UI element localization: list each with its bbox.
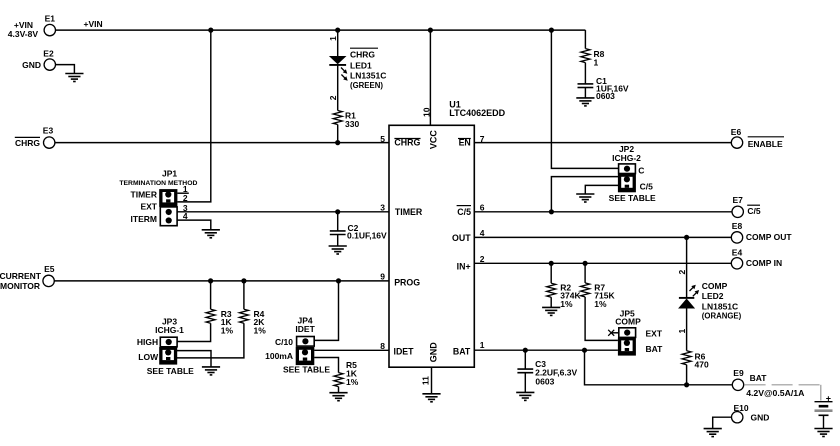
svg-text:1%: 1% [594,299,607,309]
svg-text:SEE TABLE: SEE TABLE [283,365,330,375]
svg-text:E4: E4 [732,247,743,257]
svg-text:TIMER: TIMER [395,207,423,217]
svg-text:4: 4 [183,211,188,221]
svg-text:C/5: C/5 [640,181,654,191]
svg-text:GND: GND [429,342,439,363]
svg-text:SEE TABLE: SEE TABLE [147,366,194,376]
svg-text:C/5: C/5 [747,206,761,216]
svg-text:CURRENT: CURRENT [0,271,42,281]
svg-text:4: 4 [480,228,485,238]
svg-text:E6: E6 [731,127,742,137]
svg-text:+VIN: +VIN [84,19,103,29]
svg-text:C/10: C/10 [275,337,293,347]
svg-text:1%: 1% [254,325,267,335]
svg-text:(ORANGE): (ORANGE) [702,312,742,321]
svg-text:LED2: LED2 [702,291,724,301]
svg-text:9: 9 [380,272,385,282]
svg-text:(GREEN): (GREEN) [350,81,383,90]
svg-text:LOW: LOW [138,352,159,362]
svg-text:C/5: C/5 [457,207,471,217]
svg-text:IDET: IDET [394,347,415,357]
svg-text:PROG: PROG [394,277,420,287]
svg-text:8: 8 [380,341,385,351]
svg-text:2: 2 [183,193,188,203]
svg-text:BAT: BAT [453,347,471,357]
svg-text:4.3V-8V: 4.3V-8V [8,29,39,39]
svg-text:ENABLE: ENABLE [748,139,783,149]
svg-text:SEE TABLE: SEE TABLE [609,193,656,203]
svg-text:1%: 1% [346,377,359,387]
svg-text:1%: 1% [560,299,573,309]
svg-text:BAT: BAT [750,373,768,383]
svg-text:0.1UF,16V: 0.1UF,16V [347,231,387,241]
svg-text:E1: E1 [45,14,56,24]
svg-text:LED1: LED1 [350,60,372,70]
svg-text:470: 470 [695,360,709,370]
svg-text:VCC: VCC [428,130,438,150]
svg-text:2: 2 [328,95,338,100]
svg-text:GND: GND [22,60,41,70]
svg-text:1%: 1% [221,325,234,335]
svg-text:EXT: EXT [140,202,157,212]
svg-text:COMP OUT: COMP OUT [746,232,792,242]
svg-text:3: 3 [380,203,385,213]
svg-text:0603: 0603 [535,376,554,386]
svg-text:10: 10 [422,107,432,117]
svg-text:1: 1 [677,328,687,333]
svg-text:100mA: 100mA [265,351,293,361]
svg-text:LN1351C: LN1351C [350,71,386,81]
svg-text:E7: E7 [732,195,743,205]
svg-text:ICHG-2: ICHG-2 [612,153,641,163]
svg-text:HIGH: HIGH [137,337,158,347]
svg-text:E5: E5 [44,264,55,274]
svg-text:CHRG: CHRG [15,138,40,148]
svg-text:330: 330 [345,119,359,129]
svg-text:+: + [826,394,831,404]
svg-text:E3: E3 [43,125,54,135]
svg-text:5: 5 [380,134,385,144]
svg-text:E9: E9 [733,368,744,378]
svg-text:LTC4062EDD: LTC4062EDD [449,108,505,118]
svg-text:COMP IN: COMP IN [746,258,782,268]
svg-text:E2: E2 [43,49,54,59]
svg-text:CHRG: CHRG [350,49,375,59]
svg-text:COMP: COMP [702,281,728,291]
svg-text:7: 7 [480,134,485,144]
svg-text:0603: 0603 [596,91,615,101]
svg-text:LN1851C: LN1851C [702,302,738,312]
svg-text:IDET: IDET [295,324,315,334]
svg-text:C: C [638,166,644,176]
svg-text:E10: E10 [733,403,748,413]
svg-text:GND: GND [751,413,770,423]
svg-text:E8: E8 [732,221,743,231]
svg-text:1: 1 [480,340,485,350]
svg-text:1: 1 [328,36,338,41]
svg-text:1: 1 [594,58,599,68]
svg-text:ITERM: ITERM [131,214,157,224]
svg-text:COMP: COMP [615,316,641,326]
svg-text:11: 11 [420,376,430,385]
svg-text:6: 6 [480,203,485,213]
svg-text:BAT: BAT [646,344,664,354]
svg-text:JP1: JP1 [162,168,177,178]
svg-text:ICHG-1: ICHG-1 [155,325,184,335]
svg-text:2: 2 [677,269,687,274]
svg-text:EXT: EXT [646,329,663,339]
svg-text:OUT: OUT [452,233,471,243]
svg-text:IN+: IN+ [457,262,471,272]
svg-text:2: 2 [480,254,485,264]
svg-text:TIMER: TIMER [131,190,157,200]
svg-text:MONITOR: MONITOR [0,281,40,291]
svg-text:4.2V@0.5A/1A: 4.2V@0.5A/1A [746,388,805,398]
